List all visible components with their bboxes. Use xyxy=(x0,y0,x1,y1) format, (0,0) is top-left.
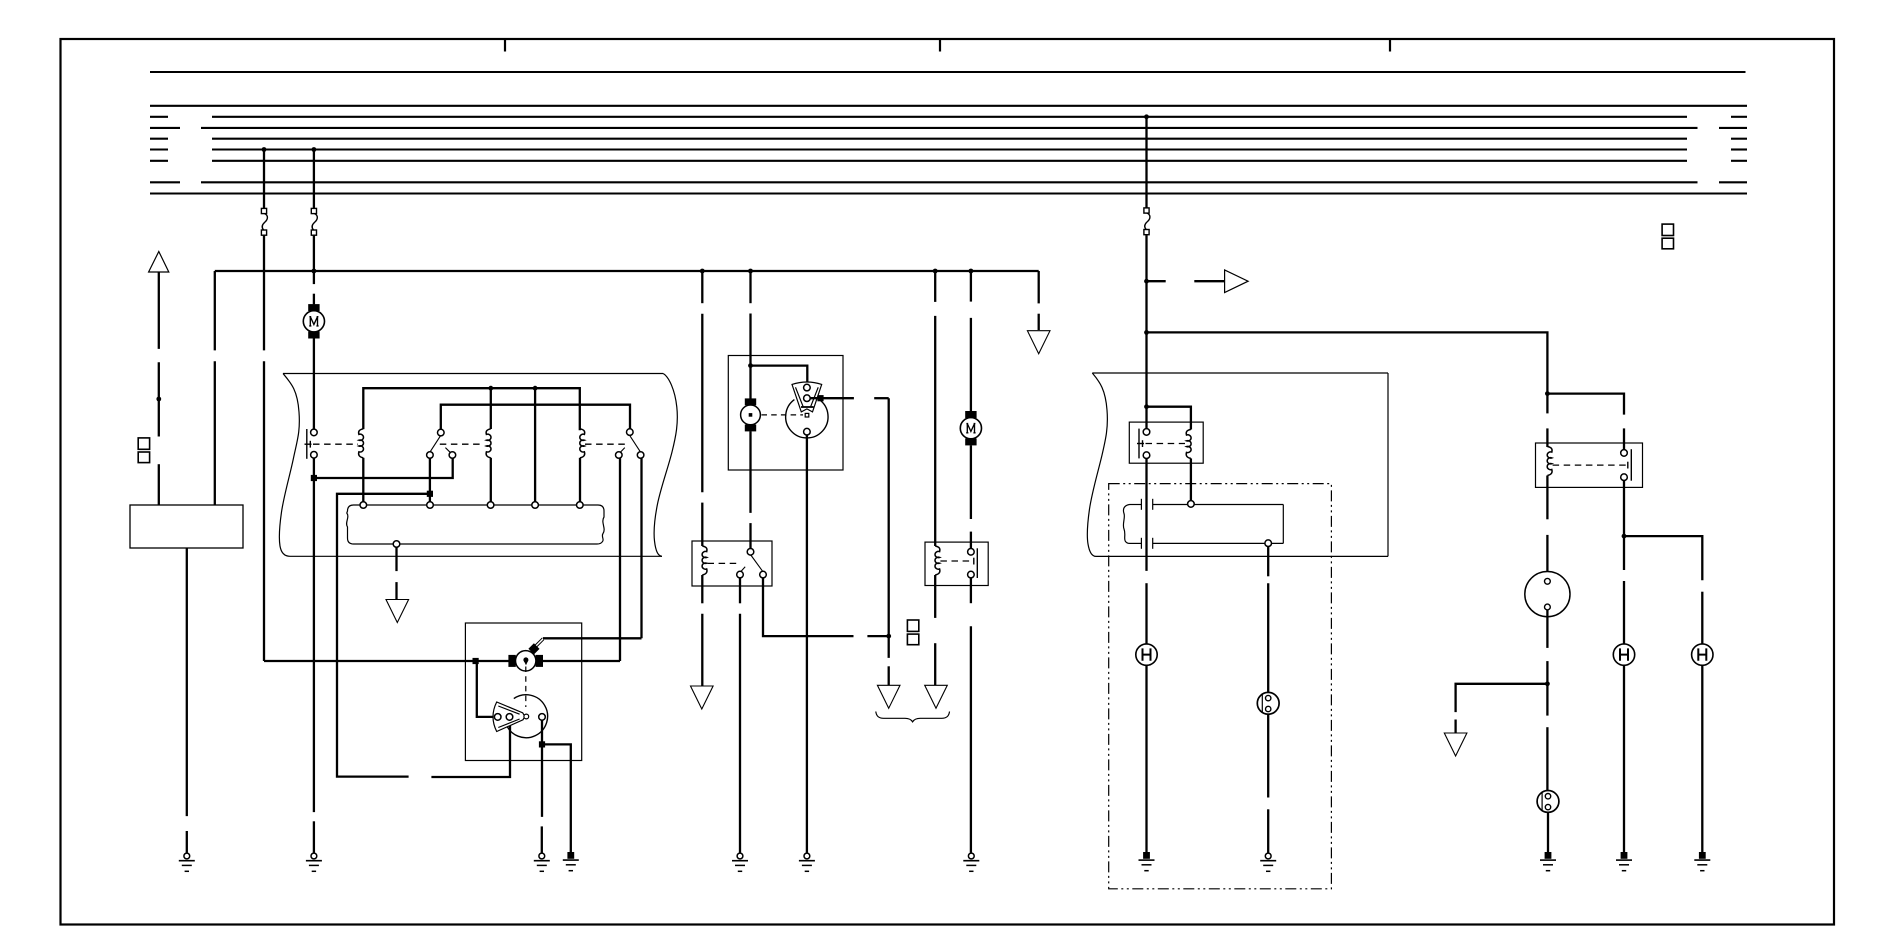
control unit box left xyxy=(130,505,243,548)
dot on left wire xyxy=(156,397,161,402)
bus line 3 xyxy=(150,116,1747,118)
down arrow 2 xyxy=(386,600,409,623)
wire to motor M2 xyxy=(970,271,972,411)
ignition coil symbol xyxy=(741,398,761,431)
branch to arrow far right xyxy=(1456,684,1548,733)
cylinder-rotary dashed link xyxy=(525,667,527,708)
relay R4 box xyxy=(1536,443,1643,487)
relay F1 BR wire to igniter line xyxy=(763,578,889,636)
ground G2 xyxy=(306,853,322,871)
igniter drop wire xyxy=(888,398,890,685)
relay F1 BL wire to ground xyxy=(739,578,741,853)
dash-dot box (harness group) xyxy=(1109,484,1332,889)
H motor right xyxy=(1692,644,1713,665)
H motor left xyxy=(1136,644,1157,665)
key link wire xyxy=(543,637,642,639)
wire to relay F2 coil xyxy=(934,271,936,546)
bus line 2 xyxy=(150,105,1747,107)
wire H to ground xyxy=(1145,665,1147,852)
relay R3 coil xyxy=(1186,429,1191,458)
ground G8 (body) xyxy=(1139,852,1155,871)
wire bulb2 to ground xyxy=(1547,812,1549,852)
main right feed wire xyxy=(1145,117,1147,209)
wire below fuse 3 xyxy=(1145,235,1147,429)
bus line 7 xyxy=(150,160,1747,162)
wire R4 contact down xyxy=(1623,481,1625,644)
wire relay3-BR to key xyxy=(640,458,642,638)
wire from up arrow xyxy=(158,272,160,505)
bus line 8 xyxy=(150,181,1747,183)
wire feed A drop xyxy=(263,150,265,209)
rotary switch circle xyxy=(506,695,548,738)
down arrow 5 xyxy=(925,685,948,708)
branch to relay coil xyxy=(1147,407,1191,430)
fuse 3 xyxy=(1144,208,1150,235)
brace under arrows xyxy=(876,712,950,722)
wire connector-strip bottom terminal to arrow xyxy=(395,547,397,599)
ground G5 xyxy=(799,853,815,871)
cigarette lighter circle xyxy=(1525,572,1570,617)
bulb 1 xyxy=(1257,692,1279,714)
relay R4 coil xyxy=(1547,447,1552,476)
relay F2 contact xyxy=(974,548,978,578)
relay F1 coil return to arrow xyxy=(701,575,703,686)
relay F1 box xyxy=(692,541,772,586)
motor M2 (wiper motor) xyxy=(960,411,981,445)
up arrow (to other page) xyxy=(149,252,169,273)
relay1 coil wire to terminal xyxy=(362,458,364,502)
relay F1 dashed link xyxy=(708,562,738,564)
wire distributor bottom to ground xyxy=(806,435,808,853)
relay F2 dashed link xyxy=(940,560,971,562)
ignition switch box xyxy=(465,623,581,761)
wire contact2-BR to M1 wire xyxy=(314,458,453,478)
distributor feed branch xyxy=(751,366,808,385)
key cylinder xyxy=(508,651,543,671)
branch wire to far right xyxy=(1147,332,1548,393)
wire below fuse 2 xyxy=(313,236,315,305)
junction dot igniter xyxy=(886,634,891,639)
inner box terminals xyxy=(1188,501,1272,547)
wire lighter down xyxy=(1546,610,1548,791)
ground G6 xyxy=(732,853,748,871)
fuse 1 xyxy=(261,208,267,235)
relay F2 contact return to ground xyxy=(970,578,972,853)
wire R3 contact down xyxy=(1145,459,1147,644)
wire feed B drop xyxy=(313,150,315,209)
junction dot heater branch xyxy=(1622,534,1627,539)
wire bulb to ground xyxy=(1267,714,1269,853)
fuse 2 xyxy=(311,208,317,235)
relay bank enclosure xyxy=(279,374,677,557)
distributor wedge xyxy=(792,382,822,412)
distributor output to igniter line xyxy=(810,397,889,399)
junction dot arrow stub xyxy=(1144,279,1149,284)
relay2 contact (changeover) xyxy=(430,436,450,452)
relay F2 box xyxy=(925,542,988,585)
relay2 dashed link xyxy=(440,443,481,445)
relay R3 box xyxy=(1129,422,1203,463)
bus line 4 xyxy=(150,127,1747,129)
rotary wedge xyxy=(493,702,525,732)
bus line 9 xyxy=(150,192,1747,194)
ground G10 (body) xyxy=(1540,852,1556,871)
ground G9 xyxy=(1260,853,1276,871)
relay R3 contact xyxy=(1137,429,1144,459)
motor M1 (washer motor) xyxy=(303,304,324,338)
junction square contact2-BL xyxy=(427,491,433,497)
wire M1 contact to ground xyxy=(313,458,315,853)
wire to relay F1 coil xyxy=(701,271,703,546)
wire H mid to ground xyxy=(1623,665,1625,852)
ground G4 (body) xyxy=(563,852,579,871)
wire to distributor xyxy=(749,271,751,399)
relay F2 coil xyxy=(935,546,940,575)
relay3 coil wire down xyxy=(579,458,581,502)
long horizontal feed line y=271 xyxy=(215,270,1039,272)
junction square below rotary xyxy=(539,741,545,747)
connector strip terminals xyxy=(360,502,583,548)
relay2 coil xyxy=(486,429,491,458)
relay1 dashed link xyxy=(313,443,358,445)
branch to ground right xyxy=(542,744,571,852)
H motor mid xyxy=(1613,644,1634,665)
down arrow 1 xyxy=(1027,331,1050,354)
relay bank bus1 xyxy=(363,388,580,430)
ground G11 (body) xyxy=(1616,852,1632,871)
junction dots on feed line xyxy=(312,269,974,274)
relay2 coil wires xyxy=(490,388,492,502)
junction dot on wedge edge xyxy=(817,395,823,401)
wire junction to rotary left terminal xyxy=(476,661,495,717)
down arrow 4 xyxy=(691,686,714,709)
wire M2 to F2 contact xyxy=(970,445,972,548)
wire box to ground xyxy=(186,548,188,853)
relay F1 coil xyxy=(702,546,707,575)
junction square cylinder xyxy=(473,658,479,664)
lighter terminals xyxy=(1545,578,1551,610)
right enclosure xyxy=(1087,373,1388,556)
feed wire into key cylinder xyxy=(264,660,620,662)
junction dot far right xyxy=(1545,391,1550,396)
branch to relay R4 contact xyxy=(1547,394,1624,450)
bulb 2 xyxy=(1537,791,1559,813)
inline connector squares mid xyxy=(907,620,918,645)
down arrow 6 xyxy=(1444,733,1467,756)
wire H right to ground xyxy=(1701,665,1703,852)
relay R3 dashed link xyxy=(1146,443,1186,445)
center wire to connector xyxy=(534,388,536,502)
distributor terminals xyxy=(804,384,811,435)
ground G1 xyxy=(179,853,195,871)
inner box wiper unit xyxy=(1123,499,1283,549)
right arrow xyxy=(1225,270,1249,293)
wire relay3-BL to key switch xyxy=(619,458,621,661)
wire inner box to bulb xyxy=(1267,547,1269,693)
relay3 coil xyxy=(580,429,585,458)
junction square M1 xyxy=(311,475,317,481)
key symbol xyxy=(528,638,543,655)
down arrow 3 xyxy=(877,685,900,708)
relay R4 coil to lighter xyxy=(1546,476,1548,578)
distributor rotor circle xyxy=(786,400,828,438)
bus line 1 xyxy=(150,71,1746,73)
junction dot lighter return xyxy=(1545,681,1550,686)
rotary center terminal xyxy=(524,714,529,719)
relay3 dashed link xyxy=(585,443,626,445)
relay R3 coil to inner box xyxy=(1190,458,1192,500)
relay bank bus2 xyxy=(441,405,630,430)
relay F2 coil return to arrow xyxy=(934,575,936,685)
relay R4 dashed link xyxy=(1553,464,1627,466)
bus line 5 xyxy=(150,138,1747,140)
wire M1 down to relay contact xyxy=(313,338,315,429)
relay1 coil xyxy=(359,429,364,458)
wire rotary right terminal down xyxy=(541,720,544,853)
relay1 contact xyxy=(305,429,312,459)
junction dot relay feed xyxy=(1144,404,1149,409)
rotary terminals xyxy=(494,714,545,721)
junction dot branch right xyxy=(1144,330,1149,335)
relay3 contact (changeover) xyxy=(620,436,640,452)
wire contact2-BL down and around to key switch xyxy=(337,458,510,777)
connector strip box xyxy=(347,505,605,544)
relay F1 contact xyxy=(741,555,763,571)
ground G3 xyxy=(534,853,550,871)
distributor box xyxy=(728,356,843,471)
relay R4 contact xyxy=(1628,449,1632,481)
inline connector squares right xyxy=(1662,224,1673,249)
wire distributor coil to F1 contact xyxy=(749,431,751,548)
junction dots bus xyxy=(262,114,1149,152)
branch to right H xyxy=(1624,536,1702,644)
right end drop to arrow xyxy=(1038,271,1040,330)
coil-rotor dashed link xyxy=(762,414,804,416)
junction dot distributor xyxy=(748,363,753,368)
arrow stub right xyxy=(1147,280,1225,282)
bus line 6 xyxy=(150,148,1747,150)
ground G12 (body) xyxy=(1694,852,1710,871)
wire below fuse 1 xyxy=(263,236,265,661)
ground G7 xyxy=(963,853,979,871)
inline connector squares left xyxy=(138,438,149,463)
wire from long bus y271 into box xyxy=(214,271,216,505)
far right feed down xyxy=(1546,394,1548,447)
